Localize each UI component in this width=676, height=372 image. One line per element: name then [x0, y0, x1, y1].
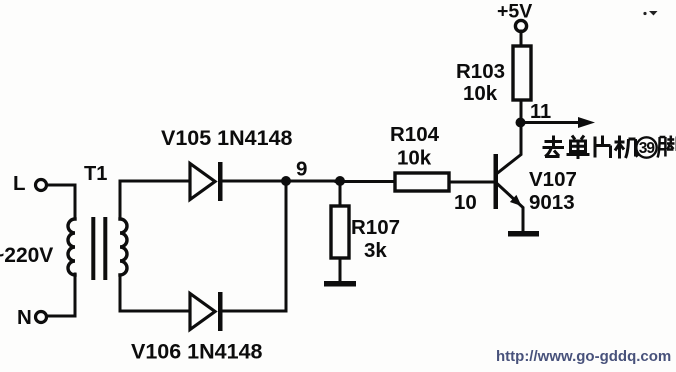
wire arrow to MCU	[521, 121, 580, 124]
wire node to R104	[336, 180, 395, 183]
diode V105	[190, 164, 215, 200]
transistor V107 base bar	[494, 154, 499, 209]
char 片	[595, 136, 611, 159]
svg-text:V107: V107	[529, 168, 577, 191]
svg-text:L: L	[13, 172, 26, 195]
svg-text:+5V: +5V	[497, 1, 532, 23]
node R107 junction dot	[335, 176, 345, 186]
svg-text:39: 39	[639, 140, 656, 157]
wire L to primary	[47, 185, 76, 219]
char 单	[567, 136, 590, 160]
ground (emitter)	[508, 231, 539, 237]
wire R103 top to +5V terminal	[520, 31, 523, 46]
transistor V107 emitter arrowhead	[510, 195, 522, 206]
svg-text:9013: 9013	[529, 191, 575, 214]
diode V106 cathode bar	[218, 292, 223, 331]
resistor R107 3k	[331, 206, 349, 258]
svg-text:N: N	[17, 306, 32, 329]
scan artifact top right	[643, 12, 646, 15]
wire R107 to ground	[339, 258, 342, 282]
wire secondary top	[120, 181, 190, 219]
transformer T1 primary winding	[68, 219, 75, 275]
svg-text:R107: R107	[351, 216, 400, 239]
svg-text:3k: 3k	[364, 239, 387, 262]
wire N to primary	[47, 274, 76, 316]
transformer core	[91, 217, 95, 280]
terminal L	[36, 180, 47, 191]
wire V106 to right riser	[222, 186, 286, 311]
char 机	[615, 136, 639, 159]
svg-text:~220V: ~220V	[0, 244, 53, 267]
arrowhead to MCU	[578, 117, 595, 128]
circled 39	[636, 137, 656, 157]
transistor V107 collector wire	[498, 101, 522, 173]
char 去	[543, 136, 565, 157]
resistor R103 10k	[513, 46, 531, 100]
wire R104 to base	[449, 181, 493, 184]
diode V106	[190, 294, 215, 330]
svg-text:11: 11	[530, 101, 551, 123]
svg-text:10: 10	[454, 191, 477, 214]
svg-text:R104: R104	[390, 123, 440, 146]
svg-text:http://www.go-gddq.com: http://www.go-gddq.com	[496, 348, 671, 365]
svg-text:9: 9	[296, 158, 307, 181]
svg-text:10k: 10k	[397, 147, 432, 170]
svg-text:R103: R103	[456, 60, 505, 83]
transformer T1 secondary winding	[120, 219, 127, 275]
svg-text:10k: 10k	[463, 82, 498, 105]
svg-text:T1: T1	[84, 163, 107, 185]
svg-text:V105 1N4148: V105 1N4148	[161, 126, 293, 150]
diode V105 cathode bar	[218, 162, 223, 201]
node 9 junction dot	[281, 176, 291, 186]
resistor R104 10k	[395, 173, 449, 191]
wire diode V105 to node 9	[222, 180, 336, 183]
char 脚 (partial at edge)	[658, 136, 676, 158]
annotation 去单片机(39)脚 hand-drawn strokes	[543, 136, 676, 160]
svg-text:V106 1N4148: V106 1N4148	[131, 340, 263, 364]
ground (R107)	[324, 281, 356, 287]
terminal +5V	[515, 20, 526, 31]
transistor V107 emitter wire	[498, 184, 524, 231]
wire secondary bottom	[120, 275, 189, 311]
wire node2 down to R107	[339, 184, 342, 206]
node 11 junction dot	[516, 118, 526, 128]
terminal N	[36, 312, 47, 323]
